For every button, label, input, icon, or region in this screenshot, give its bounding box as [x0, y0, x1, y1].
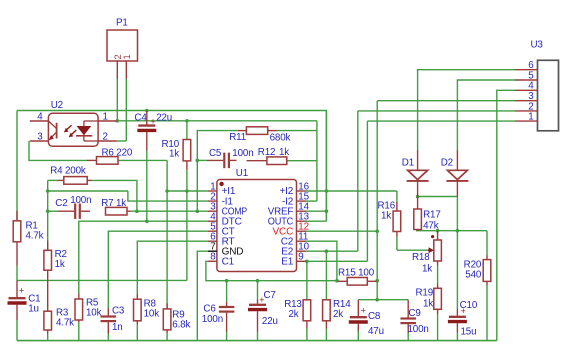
wire pin2 step upper [48, 190, 128, 192]
wire pin16 +I2 row to R16 col [306, 190, 397, 192]
svg-text:1k: 1k [423, 299, 433, 310]
svg-text:1: 1 [528, 112, 533, 123]
svg-text:U2: U2 [51, 100, 63, 111]
wire R6 right to R9 column [118, 159, 167, 161]
wire pin12 VCC row [306, 230, 377, 232]
wire C8 C9 top row [358, 299, 408, 301]
wire C1 bottom link [16, 320, 18, 341]
svg-text:R12: R12 [258, 147, 276, 158]
wire left rail row [17, 279, 187, 281]
svg-text:10k: 10k [86, 308, 102, 319]
wire pin4 DTC row to R5 [79, 221, 208, 293]
wire pin13 OUTC row [306, 220, 326, 222]
svg-text:2k: 2k [333, 309, 343, 320]
junction R10 top [185, 119, 189, 123]
junction D1 cathode link [416, 195, 420, 199]
junction C7 top [256, 279, 260, 283]
svg-text:R4 200k: R4 200k [50, 166, 86, 177]
junction D2 column on R17 R18 row [456, 229, 460, 233]
svg-text:R15 100: R15 100 [338, 268, 375, 279]
svg-text:4: 4 [37, 111, 43, 122]
junction R9 column on pin1 row [165, 189, 169, 193]
wire P1 pin1 to U2 pin2 [117, 140, 127, 142]
svg-text:+: + [150, 116, 155, 126]
svg-text:P1: P1 [116, 18, 128, 29]
wire R18 bottom to R19 [437, 265, 439, 284]
svg-text:1k: 1k [169, 149, 179, 160]
wire R11 right to pin15 col [277, 130, 317, 132]
svg-text:2: 2 [103, 131, 108, 142]
resistor R13 2k [284, 299, 311, 329]
wire C6 top link [226, 281, 228, 302]
svg-text:U3: U3 [531, 40, 544, 51]
svg-text:C10: C10 [460, 300, 478, 311]
wire C7 bottom link [257, 332, 259, 341]
capacitor C6 100n [202, 302, 235, 332]
junction C2 left on R4 column [46, 209, 50, 213]
wire C2 left link [48, 210, 58, 212]
wire C4 bottom col to pin4 row [146, 151, 148, 222]
resistor R16 1k [377, 201, 400, 237]
wire R17 R18 R20 top row [416, 230, 487, 232]
wire U2 pin3 to R6 left [29, 141, 87, 160]
connector P1 [107, 18, 138, 80]
wire R1 bottom link [16, 266, 18, 281]
wire R16 to R18 wiper [397, 249, 428, 251]
svg-text:1n: 1n [112, 322, 123, 333]
capacitor C8 47u [349, 300, 384, 337]
wire E1 col up [366, 121, 368, 261]
wire C6 bottom link [226, 332, 228, 341]
svg-text:1k: 1k [422, 264, 432, 275]
wire VCC col [376, 101, 378, 300]
wire pin1 +I1 row [167, 190, 208, 192]
svg-text:15u: 15u [461, 327, 477, 338]
svg-text:100n: 100n [408, 324, 429, 335]
capacitor C3 1n [101, 306, 125, 335]
junction R14 column on E2 row [325, 249, 329, 253]
wire R20 top link [486, 231, 488, 256]
wire R9 bottom link [166, 333, 168, 341]
svg-text:D1: D1 [402, 158, 414, 169]
junction R11 loop on COMP row [196, 209, 200, 213]
junction VCC column on C8 C9 row [375, 298, 379, 302]
capacitor C7 22u [248, 290, 278, 331]
svg-text:3: 3 [37, 131, 43, 142]
capacitor C9 100n [400, 300, 428, 335]
svg-text:540: 540 [465, 270, 482, 281]
svg-text:4.7k: 4.7k [56, 318, 74, 329]
svg-text:C8: C8 [368, 311, 381, 322]
capacitor C10 15u [448, 300, 478, 338]
svg-text:+: + [19, 285, 24, 295]
wire R12 right to pin15 col [287, 160, 317, 162]
wire R13 col from E1 row [306, 261, 308, 300]
diode D2 [441, 150, 469, 196]
wire pin6 RT row to R8 [137, 241, 208, 294]
optocoupler U2 [30, 100, 117, 146]
resistor R14 2k [323, 299, 352, 329]
svg-text:1u: 1u [28, 304, 39, 315]
svg-text:R19: R19 [415, 288, 433, 299]
wire R16 bottom link [396, 237, 398, 250]
resistor R12 1k [247, 147, 290, 164]
wire R20 bottom link [486, 286, 488, 341]
svg-text:E1: E1 [281, 257, 294, 268]
wire R9/R6 column down [166, 160, 168, 309]
capacitor C5 100n [207, 148, 254, 168]
wire pin14 VREF row [306, 210, 326, 212]
junction pin2 step on R4 column [46, 189, 50, 193]
wire E1 to U3 pin1 [367, 120, 515, 122]
resistor R15 100 [338, 268, 377, 286]
svg-text:C9: C9 [408, 308, 420, 319]
svg-text:2k: 2k [289, 309, 299, 320]
svg-text:U1: U1 [236, 168, 248, 179]
wire R8 bottom link [136, 324, 138, 341]
junction C6 top [225, 279, 229, 283]
wire pin9 E1 row [306, 260, 367, 262]
svg-text:22u: 22u [156, 113, 172, 124]
junction VREF column on pin16 row [325, 189, 329, 193]
svg-text:C5: C5 [209, 148, 222, 159]
junction R15 right on VCC column [375, 279, 379, 283]
resistor R3 4.7k [44, 280, 74, 333]
junction R18 top [436, 229, 440, 233]
wire P1 pin2 drop [116, 79, 118, 121]
resistor R8 10k [134, 294, 160, 324]
wire C5 branch [197, 159, 207, 161]
wire D2 col down to C10 [456, 197, 458, 309]
svg-text:100n: 100n [232, 148, 253, 159]
wire R10 top drop [186, 121, 188, 140]
wire C10 bottom link [456, 333, 458, 341]
wire R14 bottom link [325, 329, 327, 341]
wire pin7 GND to bottom rail [197, 251, 208, 340]
resistor R1 4.7k [13, 211, 43, 266]
wire U3 pin6 to D1 [418, 70, 515, 151]
svg-text:47u: 47u [368, 326, 384, 337]
svg-text:R7 1k: R7 1k [101, 198, 126, 209]
resistor R20 540 [464, 256, 491, 286]
svg-text:9: 9 [298, 252, 303, 263]
wire R4 left col (pin2 net) down to R2 [47, 180, 49, 250]
resistor R7 1k [101, 198, 130, 215]
wire R16 top col [396, 191, 398, 203]
svg-text:C1: C1 [222, 257, 235, 268]
wire R19 bottom link [437, 314, 439, 341]
wire pin8 C1 down and under U1 [206, 261, 338, 280]
wire U3 pin4 ground col [497, 90, 515, 340]
wire bottom ground rail [17, 340, 497, 342]
junction C5 branch [196, 159, 200, 163]
wire R11 left loop to pin3 [197, 131, 238, 212]
wire D1 D2 cathode link [418, 196, 458, 198]
wire C3 bottom link [107, 334, 109, 341]
wire R10 bottom to pin1 row then left rail link [186, 170, 188, 280]
wire net VCC12V top rail (pin16 +I2 net) [17, 111, 326, 222]
svg-text:+: + [361, 305, 366, 315]
resistor R4 200k [50, 166, 91, 185]
svg-text:C6: C6 [203, 304, 216, 315]
resistor R2 1k [44, 241, 67, 281]
wire U3 pin5 to D2 [457, 80, 515, 151]
resistor R5 10k [75, 294, 102, 323]
wire R13 bottom link [306, 329, 308, 341]
svg-text:1k: 1k [55, 259, 65, 270]
svg-text:D2: D2 [441, 158, 453, 169]
svg-text:1k: 1k [279, 147, 289, 158]
resistor R11 680k [229, 127, 290, 144]
svg-text:C7: C7 [264, 290, 276, 301]
wire E2 col up [357, 111, 359, 251]
potentiometer R18 1k [412, 231, 441, 275]
connector U3 [515, 40, 559, 131]
wire pin2 -I1 row with step [128, 191, 208, 201]
wire R4 left link [48, 179, 58, 181]
junction R10 bottom on pin1 row [185, 189, 189, 193]
resistor R9 6.8k [163, 304, 190, 334]
svg-text:1k: 1k [381, 211, 391, 222]
capacitor C4 22u [134, 111, 172, 151]
junction C4 top on +I2 net [145, 109, 149, 113]
svg-text:R17: R17 [423, 210, 441, 221]
wire pin15 net vertical [316, 121, 318, 201]
capacitor C1 1u [8, 280, 41, 320]
wire pin10 E2 row [306, 250, 358, 252]
svg-text:4.7k: 4.7k [26, 231, 44, 242]
junction VREF column on pin14 row [325, 209, 329, 213]
wire R14 col from E2 row [325, 251, 327, 300]
svg-text:1: 1 [103, 111, 108, 122]
wire U2 pin1 to pin15 net [117, 120, 317, 122]
junction pin11 drop on C1C2 row [335, 279, 339, 283]
wire VREF col [325, 111, 327, 222]
svg-text:100n: 100n [70, 195, 91, 206]
svg-text:10k: 10k [144, 309, 160, 320]
diode D1 [402, 150, 429, 209]
wire pin11 C2 drop to under-row [306, 241, 337, 281]
junction C4 bottom on DTC row [145, 219, 149, 223]
junction R13 column on E1 row [305, 260, 309, 264]
wire P1 pin1 drop [125, 79, 127, 141]
wire pin15 -I2 stub row [306, 200, 317, 202]
wire C7 top link [257, 281, 259, 300]
svg-text:1: 1 [122, 54, 132, 59]
wire VCC to U3 pin3 [377, 100, 515, 102]
resistor R10 1k [161, 139, 190, 170]
svg-text:R18: R18 [412, 252, 430, 263]
wire R4 right col down to pin3 row [91, 180, 136, 211]
svg-text:4: 4 [528, 81, 534, 92]
junction R4 right column on COMP row [135, 209, 139, 213]
wire R5 bottom link [78, 323, 80, 341]
wire left rail column [16, 111, 18, 220]
svg-text:R6 220: R6 220 [102, 147, 133, 158]
IC U1 TL494 [208, 168, 310, 272]
svg-text:C3: C3 [112, 306, 125, 317]
wire pin3 COMP row [131, 210, 208, 212]
svg-text:100n: 100n [202, 314, 223, 325]
svg-text:C4: C4 [134, 113, 147, 124]
svg-text:22u: 22u [262, 316, 278, 327]
wire pin5 CT row to C3 [108, 231, 208, 308]
wire E2 to U3 pin2 [358, 110, 515, 112]
junction P1 pin2 on U2 pin1 net [116, 119, 120, 123]
svg-text:C2: C2 [55, 198, 67, 209]
svg-text:R11: R11 [229, 132, 246, 143]
capacitor C2 100n [55, 195, 91, 219]
svg-text:6.8k: 6.8k [172, 320, 190, 331]
wire R3 bottom link [47, 334, 49, 341]
resistor R19 1k [415, 284, 441, 314]
svg-text:8: 8 [210, 252, 216, 263]
svg-text:680k: 680k [270, 132, 291, 143]
wire C8 bottom link [357, 331, 359, 341]
resistor R6 220 [87, 147, 133, 164]
svg-text:47k: 47k [423, 221, 439, 232]
resistor R17 47k [414, 209, 441, 232]
junction VCC row on VCC column [375, 229, 379, 233]
wire C9 bottom link [407, 333, 409, 341]
